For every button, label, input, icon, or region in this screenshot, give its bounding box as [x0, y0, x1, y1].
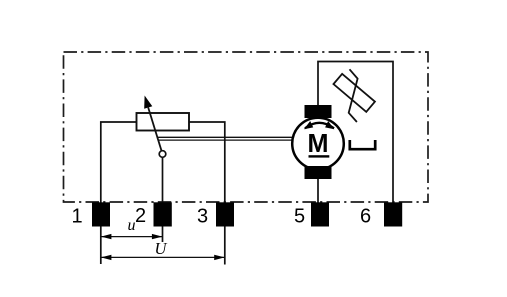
- wire motor top to upper loop and down right side to terminal 6: [318, 62, 393, 204]
- svg-text:5: 5: [294, 205, 305, 227]
- svg-text:2: 2: [135, 205, 146, 227]
- terminal 3 pad: [216, 202, 234, 226]
- svg-text:U: U: [155, 239, 168, 258]
- motor rotation arc arrow: [305, 123, 334, 129]
- svg-text:1: 1: [71, 205, 82, 227]
- potentiometer wiper arrowhead: [144, 96, 152, 109]
- resistor R (potentiometer body): [137, 113, 190, 131]
- dimension arrowhead u left: [101, 234, 112, 239]
- svg-text:M: M: [308, 130, 329, 158]
- rotation arrowhead left: [304, 121, 313, 129]
- enclosure dash-dot border: [64, 52, 429, 202]
- wire motor bottom to terminal 5: [317, 176, 319, 203]
- terminal 2 pad: [154, 202, 172, 226]
- terminal 6 pad: [384, 202, 402, 226]
- svg-text:u: u: [128, 217, 136, 234]
- dimension arrowhead U right: [214, 255, 225, 260]
- dimension line u: [101, 236, 163, 238]
- terminal 5 pad: [311, 202, 329, 226]
- strainer bracket: [350, 140, 375, 149]
- terminal 1 pad: [92, 202, 110, 226]
- wire left loop: terminal 1 to resistor left end (with dimension extension below): [101, 122, 137, 264]
- potentiometer wiper arrow shaft: [148, 108, 162, 155]
- rotation arrowhead right: [325, 121, 334, 129]
- dimension arrowhead u right: [152, 234, 163, 239]
- svg-text:3: 3: [197, 206, 208, 228]
- motor brush bottom: [305, 166, 332, 179]
- svg-text:6: 6: [360, 205, 371, 227]
- potentiometer wiper contact circle: [159, 151, 166, 158]
- wire wiper to terminal 2 (with dimension extension below): [162, 157, 164, 242]
- motor letter underline: [309, 155, 330, 157]
- motor brush top: [305, 105, 332, 118]
- motor M1 body circle: [292, 118, 344, 170]
- float body (tilted rectangle): [333, 74, 374, 112]
- float lever arm: [349, 69, 358, 122]
- dimension arrowhead U left: [101, 255, 112, 260]
- wire right loop: resistor right end to terminal 3 (with dimension extension below): [189, 122, 225, 265]
- dimension line U: [101, 256, 225, 258]
- mechanical link double line: [157, 136, 292, 138]
